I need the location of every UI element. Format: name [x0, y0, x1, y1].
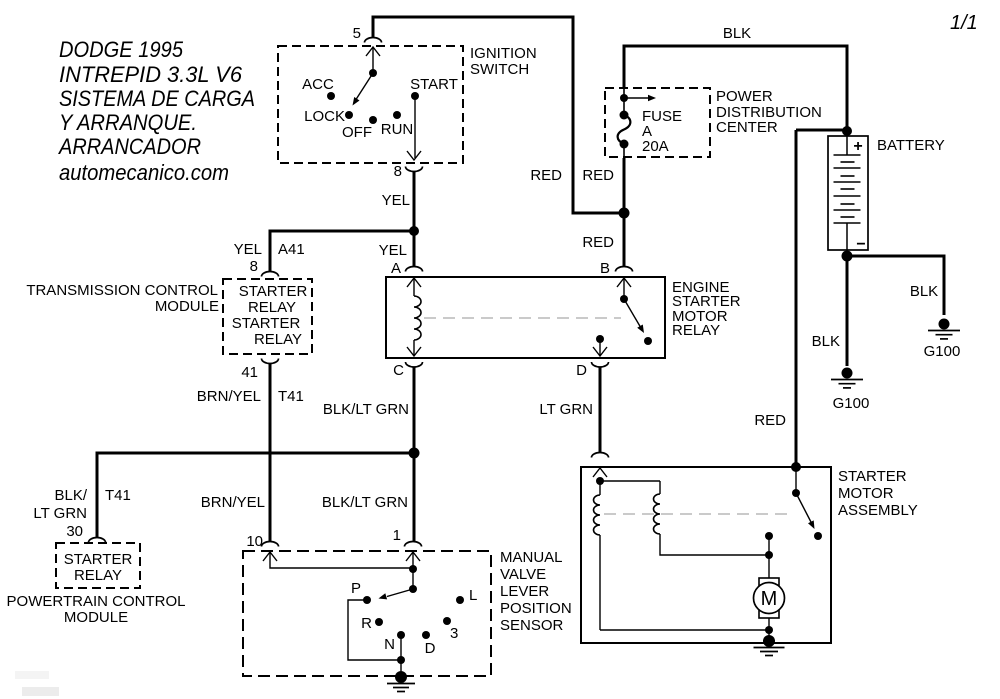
svg-text:YEL: YEL: [379, 242, 407, 259]
svg-text:CENTER: CENTER: [716, 119, 778, 136]
svg-text:LEVER: LEVER: [500, 583, 549, 600]
3 contact: [443, 617, 451, 625]
START contact: [411, 92, 419, 100]
TCM pin 41 connector: [262, 359, 279, 364]
engine starter motor relay box: [386, 277, 665, 358]
power distribution center box: [605, 88, 710, 157]
svg-text:RED: RED: [754, 412, 786, 429]
solenoid coil jumper: [600, 480, 660, 482]
wire YEL junction to relay pin A: [413, 231, 416, 266]
svg-text:30: 30: [66, 523, 83, 540]
PCM pin 30 connector: [89, 538, 106, 543]
ACC contact: [327, 92, 335, 100]
svg-text:RED: RED: [582, 234, 614, 251]
svg-text:VALVE: VALVE: [500, 566, 546, 583]
svg-text:LT GRN: LT GRN: [33, 505, 87, 522]
MVLPS pin 10 internal lead: [263, 552, 277, 561]
svg-text:TRANSMISSION CONTROL: TRANSMISSION CONTROL: [26, 282, 218, 299]
starter ground junction: [768, 630, 770, 637]
fuse feed arrow: [624, 97, 648, 99]
svg-text:BLK: BLK: [812, 333, 840, 350]
starter feed connector: [592, 453, 609, 458]
svg-text:3: 3: [450, 625, 458, 642]
svg-text:POWERTRAIN CONTROL: POWERTRAIN CONTROL: [7, 593, 186, 610]
junction RED splice: [619, 208, 630, 219]
starter switch blade: [796, 493, 812, 524]
ignition switch box: [278, 46, 463, 163]
ignition switch common contact wire: [372, 47, 374, 70]
svg-text:RELAY: RELAY: [254, 331, 302, 348]
coil junction on motor feed: [765, 551, 773, 559]
svg-text:10: 10: [246, 533, 263, 550]
svg-text:RED: RED: [582, 167, 614, 184]
svg-text:T41: T41: [278, 388, 304, 405]
svg-text:automecanico.com: automecanico.com: [59, 160, 229, 185]
pin 8 connector: [406, 167, 423, 172]
svg-text:BLK: BLK: [910, 283, 938, 300]
svg-text:INTREPID 3.3L V6: INTREPID 3.3L V6: [59, 62, 243, 87]
svg-text:8: 8: [250, 258, 258, 275]
ignition switch wiper blade: [355, 73, 373, 101]
svg-text:A: A: [391, 260, 401, 277]
relay internal dashed axis: [424, 317, 621, 319]
MVLPS pin 10 connector: [262, 542, 279, 547]
D contact: [422, 631, 430, 639]
MVLPS wiper blade: [387, 589, 413, 597]
starter bottom bus: [600, 629, 769, 631]
svg-text:BRN/YEL: BRN/YEL: [201, 494, 265, 511]
svg-text:1: 1: [393, 527, 401, 544]
svg-text:POWER: POWER: [716, 88, 773, 105]
START to pin 8 wire: [414, 96, 416, 158]
svg-text:ARRANCADOR: ARRANCADOR: [57, 134, 201, 159]
MVLPS pin 1 connector: [405, 542, 422, 547]
starter solenoid feed: [593, 468, 607, 477]
svg-text:−: −: [856, 236, 865, 253]
junction BLK/LT GRN splice: [409, 448, 420, 459]
relay switch blade: [624, 299, 641, 328]
svg-text:MANUAL: MANUAL: [500, 549, 563, 566]
relay switch fixed contact: [644, 337, 652, 345]
wire BRN/YEL TCM pin 41 to MVLPS pin 10: [269, 364, 272, 541]
svg-text:RELAY: RELAY: [672, 322, 720, 339]
svg-text:STARTER: STARTER: [838, 468, 907, 485]
svg-text:SWITCH: SWITCH: [470, 61, 529, 78]
svg-text:T41: T41: [105, 487, 131, 504]
svg-text:ACC: ACC: [302, 76, 334, 93]
motor feed node: [765, 532, 773, 540]
wire BLK battery negative to left ground: [846, 256, 849, 366]
svg-text:MODULE: MODULE: [64, 609, 128, 626]
PCM starter relay box: [56, 543, 140, 588]
svg-text:1/1: 1/1: [950, 12, 978, 34]
svg-text:RELAY: RELAY: [248, 299, 296, 316]
relay pin C connector: [406, 362, 423, 367]
svg-text:YEL: YEL: [382, 192, 410, 209]
starter motor M: [759, 578, 779, 618]
svg-text:D: D: [576, 362, 587, 379]
wire RED battery to starter switch: [796, 129, 847, 132]
svg-text:G100: G100: [924, 343, 961, 360]
fuse wire inside PDC: [623, 88, 625, 115]
MVLPS wiper node: [409, 585, 417, 593]
svg-text:5: 5: [353, 25, 361, 42]
battery positive junction: [842, 126, 852, 136]
svg-text:M: M: [761, 588, 778, 610]
starter case ground: [763, 635, 775, 647]
LOCK contact: [345, 111, 353, 119]
svg-text:C: C: [393, 362, 404, 379]
MVLPS pin 1 internal lead: [406, 552, 420, 561]
svg-text:YEL: YEL: [234, 241, 262, 258]
title block text: [57, 37, 255, 185]
wire BLK/LT GRN relay pin C to MVLPS pin 1: [413, 367, 416, 541]
svg-text:MOTOR: MOTOR: [838, 485, 894, 502]
junction YEL splice: [409, 226, 419, 236]
wire from ignition switch pin 5 to power distribution center (top run): [373, 17, 621, 213]
ground G100 left: [842, 368, 853, 379]
svg-text:RELAY: RELAY: [74, 567, 122, 584]
svg-text:D: D: [425, 640, 436, 657]
OFF contact: [369, 116, 377, 124]
fuse feed node: [620, 94, 628, 102]
starter internal dashed axis: [604, 513, 790, 515]
svg-text:N: N: [384, 636, 395, 653]
RUN contact: [393, 111, 401, 119]
relay pin D connector: [592, 362, 609, 367]
svg-text:Y ARRANQUE.: Y ARRANQUE.: [59, 110, 197, 135]
wire RED fuse to splice: [623, 158, 626, 213]
svg-text:STARTER: STARTER: [239, 283, 308, 300]
starter switch fixed contact: [814, 532, 822, 540]
faint watermark: [15, 671, 49, 679]
svg-text:B: B: [600, 260, 610, 277]
R contact: [375, 618, 383, 626]
svg-text:BLK/LT GRN: BLK/LT GRN: [323, 401, 409, 418]
svg-text:BLK/LT GRN: BLK/LT GRN: [322, 494, 408, 511]
svg-text:SISTEMA DE CARGA: SISTEMA DE CARGA: [59, 86, 255, 111]
svg-text:BRN/YEL: BRN/YEL: [197, 388, 261, 405]
relay pin B connector: [616, 267, 633, 272]
svg-text:BATTERY: BATTERY: [877, 137, 945, 154]
svg-text:8: 8: [394, 163, 402, 180]
svg-text:START: START: [410, 76, 458, 93]
wire P contact to N contact: [348, 600, 401, 660]
svg-text:BLK: BLK: [723, 25, 751, 42]
solenoid hold-in coil: [659, 481, 661, 494]
ground G100 right: [939, 319, 950, 330]
svg-text:+: +: [853, 138, 862, 155]
wire BLK/LT GRN splice to PCM pin 30: [97, 453, 414, 537]
wire YEL junction to TCM branch: [270, 231, 414, 271]
battery cell plates: [846, 133, 848, 155]
svg-text:STARTER: STARTER: [64, 551, 133, 568]
solenoid pull-in coil: [599, 481, 601, 495]
pin 5 arrow into switch: [366, 47, 380, 56]
P contact: [363, 596, 371, 604]
svg-text:ASSEMBLY: ASSEMBLY: [838, 502, 918, 519]
pin 5 connector: [365, 38, 382, 43]
MVLPS internal junction: [409, 565, 417, 573]
svg-text:BLK/: BLK/: [54, 487, 87, 504]
svg-text:41: 41: [241, 364, 258, 381]
svg-text:20A: 20A: [642, 138, 669, 155]
svg-text:IGNITION: IGNITION: [470, 45, 537, 62]
wire LT GRN relay pin D to starter assembly: [599, 367, 602, 452]
svg-text:LT GRN: LT GRN: [539, 401, 593, 418]
MVLPS case ground: [395, 671, 407, 683]
TCM pin 8 connector: [262, 272, 279, 277]
starter switch battery node: [791, 462, 801, 472]
relay coil K1: [407, 278, 421, 287]
svg-text:G100: G100: [833, 395, 870, 412]
svg-text:STARTER: STARTER: [232, 315, 301, 332]
svg-text:SENSOR: SENSOR: [500, 617, 564, 634]
wire RED splice to relay pin B: [623, 213, 626, 266]
N contact: [397, 631, 405, 639]
battery BAT1 box: [828, 136, 868, 250]
svg-text:DODGE 1995: DODGE 1995: [59, 37, 184, 62]
svg-text:L: L: [469, 587, 477, 604]
L contact: [456, 596, 464, 604]
svg-text:MODULE: MODULE: [155, 298, 219, 315]
relay output contact to pin D: [596, 335, 604, 343]
TCM starter relay box: [223, 279, 312, 354]
svg-text:P: P: [351, 580, 361, 597]
battery negative junction: [842, 251, 853, 262]
svg-text:RUN: RUN: [381, 121, 414, 138]
svg-text:A41: A41: [278, 241, 305, 258]
motor ground lead: [768, 618, 770, 630]
svg-text:LOCK: LOCK: [304, 108, 345, 125]
relay switch contact from pin B: [617, 278, 631, 287]
wire YEL ignition pin 8 down to junction: [413, 172, 416, 231]
ignition switch common node: [369, 69, 377, 77]
MVLPS wiper feed: [412, 569, 414, 589]
starter switch contact: [795, 467, 797, 490]
manual valve lever position sensor box: [243, 551, 491, 676]
svg-text:POSITION: POSITION: [500, 600, 572, 617]
fuse A 20A element: [620, 111, 629, 120]
svg-text:RED: RED: [530, 167, 562, 184]
wire BLK fuse to battery (top run): [624, 46, 847, 128]
starter motor assembly box: [581, 467, 831, 643]
wire BLK battery negative to right ground: [847, 256, 944, 315]
MVLPS ground junction: [397, 656, 405, 664]
svg-text:R: R: [361, 615, 372, 632]
relay pin A connector: [406, 267, 423, 272]
svg-text:OFF: OFF: [342, 124, 372, 141]
